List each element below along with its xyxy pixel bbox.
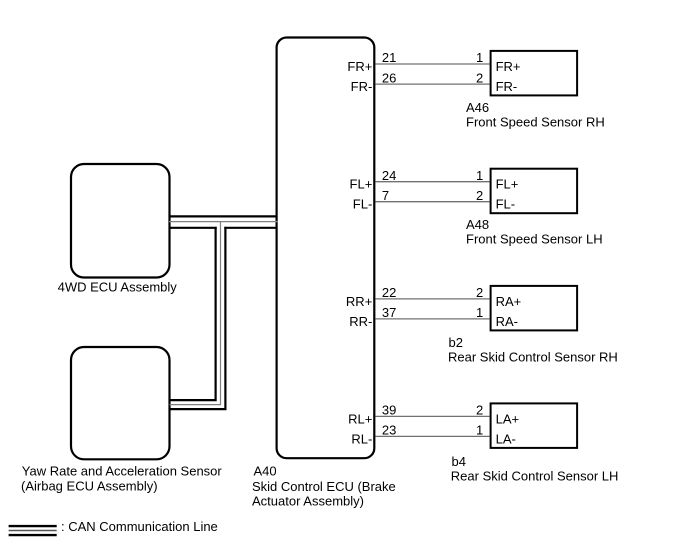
4WD ECU Assembly box bbox=[71, 164, 170, 278]
legend CAN line symbol upper black line bbox=[9, 525, 57, 527]
CAN branch left black line bbox=[170, 227, 216, 400]
svg-text:RR-: RR- bbox=[349, 314, 372, 329]
sensor b4 box bbox=[491, 403, 577, 448]
Skid Control ECU box A40 bbox=[277, 38, 375, 459]
svg-text:22: 22 bbox=[382, 285, 396, 300]
svg-text:23: 23 bbox=[382, 423, 396, 438]
svg-text:FL+: FL+ bbox=[350, 177, 373, 192]
svg-text:Skid Control ECU (Brake: Skid Control ECU (Brake bbox=[252, 479, 396, 494]
svg-text:RA+: RA+ bbox=[496, 294, 522, 309]
sensor A46 box bbox=[491, 51, 577, 96]
svg-text:FR+: FR+ bbox=[347, 59, 372, 74]
sensor b2 box bbox=[491, 286, 577, 331]
svg-text:Actuator Assembly): Actuator Assembly) bbox=[252, 494, 364, 509]
svg-text:(Airbag ECU Assembly): (Airbag ECU Assembly) bbox=[21, 479, 158, 494]
svg-text:24: 24 bbox=[382, 168, 396, 183]
svg-text:FR-: FR- bbox=[496, 79, 518, 94]
svg-text:Rear Skid Control Sensor LH: Rear Skid Control Sensor LH bbox=[451, 468, 619, 483]
svg-text:FR-: FR- bbox=[351, 79, 373, 94]
svg-text:FL-: FL- bbox=[496, 197, 515, 212]
wire ECU pin 39 to sensor b4 pin 2 bbox=[376, 415, 490, 417]
CAN bus trunk middle gray line bbox=[169, 221, 278, 223]
wire ECU pin 26 to sensor A46 pin 2 bbox=[376, 83, 490, 85]
svg-text:RR+: RR+ bbox=[346, 294, 372, 309]
svg-text:1: 1 bbox=[476, 305, 483, 320]
svg-text:RL-: RL- bbox=[351, 431, 372, 446]
svg-text:: CAN Communication Line: : CAN Communication Line bbox=[61, 519, 218, 534]
svg-text:RA-: RA- bbox=[496, 314, 518, 329]
svg-text:4WD ECU Assembly: 4WD ECU Assembly bbox=[58, 280, 178, 295]
sensor A48 box bbox=[491, 169, 577, 214]
svg-text:FL+: FL+ bbox=[496, 177, 519, 192]
svg-text:FR+: FR+ bbox=[496, 59, 521, 74]
svg-text:37: 37 bbox=[382, 305, 396, 320]
svg-text:A46: A46 bbox=[466, 100, 489, 115]
wire ECU pin 23 to sensor b4 pin 1 bbox=[376, 435, 490, 437]
svg-text:b4: b4 bbox=[452, 454, 466, 469]
svg-text:1: 1 bbox=[476, 423, 483, 438]
wire ECU pin 24 to sensor A48 pin 1 bbox=[376, 181, 490, 183]
svg-text:2: 2 bbox=[476, 70, 483, 85]
svg-text:26: 26 bbox=[382, 70, 396, 85]
svg-text:21: 21 bbox=[382, 50, 396, 65]
svg-text:b2: b2 bbox=[449, 335, 463, 350]
svg-text:FL-: FL- bbox=[353, 197, 373, 212]
legend CAN line symbol middle gray line bbox=[9, 530, 57, 532]
svg-text:A40: A40 bbox=[254, 464, 277, 479]
wire ECU pin 21 to sensor A46 pin 1 bbox=[376, 63, 490, 65]
svg-text:RL+: RL+ bbox=[348, 411, 372, 426]
svg-text:1: 1 bbox=[476, 168, 483, 183]
CAN bus trunk lower black line (gap at branch) bbox=[169, 227, 278, 229]
wire ECU pin 37 to sensor b2 pin 1 bbox=[376, 318, 490, 320]
wire ECU pin 22 to sensor b2 pin 2 bbox=[376, 298, 490, 300]
wire ECU pin 7 to sensor A48 pin 2 bbox=[376, 201, 490, 203]
legend CAN line symbol lower black line bbox=[9, 534, 57, 536]
svg-text:Yaw Rate and Acceleration Sens: Yaw Rate and Acceleration Sensor bbox=[22, 464, 223, 479]
svg-text:7: 7 bbox=[382, 188, 389, 203]
svg-text:2: 2 bbox=[476, 285, 483, 300]
svg-text:LA-: LA- bbox=[496, 431, 516, 446]
svg-text:Rear Skid Control Sensor RH: Rear Skid Control Sensor RH bbox=[448, 350, 618, 365]
Yaw Rate and Acceleration Sensor box bbox=[71, 347, 170, 459]
svg-text:39: 39 bbox=[382, 403, 396, 418]
svg-text:A48: A48 bbox=[466, 217, 489, 232]
svg-text:Front Speed Sensor LH: Front Speed Sensor LH bbox=[466, 232, 603, 247]
svg-text:Front Speed Sensor RH: Front Speed Sensor RH bbox=[466, 115, 605, 130]
svg-text:2: 2 bbox=[476, 403, 483, 418]
svg-text:LA+: LA+ bbox=[496, 411, 519, 426]
svg-text:1: 1 bbox=[476, 50, 483, 65]
CAN bus trunk upper black line bbox=[169, 215, 278, 217]
svg-text:2: 2 bbox=[476, 188, 483, 203]
CAN branch right black line bbox=[170, 227, 226, 409]
CAN branch middle gray line bbox=[170, 222, 221, 405]
